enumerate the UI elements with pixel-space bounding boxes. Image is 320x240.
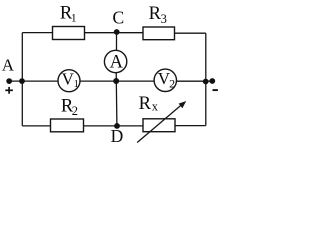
wire bottom-right segment (Rx to corner) <box>175 125 206 127</box>
negative terminal dot <box>209 78 215 84</box>
svg-text:A: A <box>110 53 124 73</box>
wire top-left segment (corner to R1) <box>22 32 52 34</box>
wire middle-right segment (V2 to - terminal) <box>176 80 212 82</box>
wire left vertical (top corner to bottom corner) <box>21 33 23 126</box>
wire bottom-left segment (corner to R2) <box>22 125 50 127</box>
resistor Rx (variable) <box>143 119 175 132</box>
node D junction dot <box>114 123 120 129</box>
svg-text:C: C <box>113 8 125 28</box>
resistor R3 <box>143 27 175 40</box>
resistor R2 <box>51 119 84 132</box>
plus terminal sign <box>5 87 13 94</box>
svg-text:2: 2 <box>72 104 78 118</box>
svg-text:D: D <box>111 126 124 146</box>
wire bottom-middle segment (R2 to D to Rx) <box>84 125 144 127</box>
arrow of variable resistor Rx <box>137 101 186 143</box>
node C junction dot <box>114 29 120 35</box>
voltmeter V2 <box>154 69 176 91</box>
svg-text:A: A <box>2 55 15 74</box>
svg-text:x: x <box>152 99 159 113</box>
wire top-middle segment (R1 to C to R3) <box>85 32 144 34</box>
wire middle-left segment (terminal A to V1) <box>9 80 58 82</box>
node A junction dot on left wire <box>19 78 25 84</box>
right junction dot on right wire <box>203 79 209 85</box>
wire middle-center segment (V1 to V2 through center junction) <box>80 80 154 82</box>
ammeter U A <box>104 50 126 72</box>
svg-text:R: R <box>139 94 152 114</box>
minus terminal sign <box>213 89 218 91</box>
svg-text:1: 1 <box>74 79 79 90</box>
resistor R1 <box>53 27 85 40</box>
wire vertical ammeter to D through center junction <box>115 73 118 126</box>
wire right vertical (top corner to bottom corner) <box>205 33 207 125</box>
voltmeter V1 <box>58 70 80 92</box>
node A terminal dot <box>6 78 12 84</box>
wire top-right segment (R3 to corner) <box>175 32 206 34</box>
svg-text:1: 1 <box>71 13 77 25</box>
svg-text:2: 2 <box>169 77 175 91</box>
wire vertical C to ammeter <box>116 33 118 51</box>
center junction dot <box>113 78 119 84</box>
svg-text:3: 3 <box>161 12 167 26</box>
